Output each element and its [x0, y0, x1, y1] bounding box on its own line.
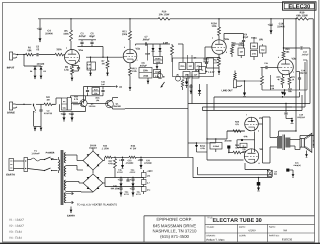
ground R7 — [106, 72, 109, 76]
capacitor C5 — [89, 33, 95, 47]
EQ module box — [173, 58, 214, 77]
capacitor C6 cathode bypass — [72, 66, 80, 71]
volume network — [231, 42, 245, 58]
capacitor C10A cathode — [203, 54, 219, 68]
transistor Q1 — [79, 98, 96, 112]
ground C19 — [291, 119, 294, 124]
title block company address — [153, 218, 196, 239]
wire NFB right edge — [312, 19, 314, 148]
capacitor C25 — [130, 169, 136, 187]
ext amp jack — [287, 162, 301, 173]
capacitor C27 — [130, 187, 141, 197]
resistor R17 cathode — [214, 57, 221, 70]
PI enclosure wires — [262, 60, 307, 90]
ground V1a cathode — [71, 77, 74, 81]
resistor R15 220k — [163, 42, 173, 62]
capacitor C24 — [117, 169, 123, 187]
ground network — [89, 72, 92, 76]
capacitor C4 — [37, 19, 53, 42]
node dot C19 — [285, 103, 286, 104]
drive caps row — [126, 178, 129, 182]
stack R18A — [251, 37, 258, 60]
terminal block — [24, 158, 28, 172]
ground input diodes — [34, 75, 43, 79]
ground V1b cathode — [129, 86, 132, 90]
capacitor C26 — [118, 187, 129, 197]
tone lower boxes — [183, 72, 199, 79]
title block fields — [207, 226, 292, 241]
net arrow C8 — [111, 86, 122, 88]
pentode V3 — [245, 114, 262, 131]
supply rail 1 — [101, 145, 193, 160]
resistor R1 — [26, 47, 34, 56]
label Q2 — [113, 103, 120, 107]
output transformer T2 — [278, 130, 297, 150]
wire R24A node — [188, 142, 216, 144]
drive input boxes — [52, 98, 71, 111]
diode D3 clip — [145, 44, 154, 55]
ground V2a cathode — [218, 70, 221, 74]
resistor R19A line out — [234, 71, 236, 80]
wire plates to OT — [258, 117, 277, 163]
resistor R22 tail — [261, 68, 264, 91]
cathode box — [240, 143, 247, 152]
screen network box — [210, 138, 222, 152]
resistor R4 grid stopper — [55, 49, 64, 56]
switch S1a — [44, 152, 58, 160]
pentode V4 — [244, 147, 262, 164]
resistor R11 plate load — [122, 19, 132, 50]
triode V1a — [65, 47, 84, 67]
net label 3P — [259, 39, 263, 41]
resistor R26 grid V4 — [229, 145, 245, 154]
wire grid V3 — [207, 131, 245, 139]
capacitor C9 — [242, 34, 248, 45]
resistor R20 — [277, 75, 284, 89]
capacitor C19 — [284, 104, 305, 120]
diode D4 clip — [159, 44, 162, 51]
lower bus node — [257, 178, 260, 191]
wire plate to C9 — [224, 34, 244, 42]
tone network boxes — [139, 68, 152, 79]
resistor R5 plate load — [64, 19, 73, 50]
drawing number box ELEC30 — [283, 2, 317, 10]
wire drive out — [113, 98, 189, 110]
tone pots row — [179, 55, 206, 74]
resistor R15A plate — [211, 19, 220, 40]
wire bus B — [188, 74, 310, 158]
title block frame — [144, 216, 315, 242]
transistor Q2 — [103, 98, 114, 110]
wire C17 down — [309, 48, 311, 104]
mains inlet — [7, 159, 25, 176]
ground speaker — [305, 151, 308, 158]
wire interstage — [86, 57, 123, 63]
earth ground — [67, 207, 75, 217]
ground PI box — [283, 89, 286, 96]
wire lower bus — [193, 157, 272, 178]
ground line out — [243, 92, 246, 97]
voltage note — [205, 71, 214, 73]
resistor R4B — [129, 156, 136, 158]
resistor R13 cathode — [129, 63, 137, 86]
supply rail 2 — [103, 177, 144, 183]
capacitor C2b — [34, 104, 53, 126]
wire V4 cathode down — [245, 163, 270, 170]
wire bus A — [214, 92, 300, 110]
resistor network box R14A — [153, 50, 163, 65]
triode V2a — [212, 37, 229, 58]
triode V1b — [123, 47, 140, 63]
node square — [228, 146, 231, 154]
drive row2 components — [71, 81, 111, 103]
screen resistor R29 — [237, 132, 255, 153]
pot P2 drive — [157, 71, 164, 78]
capacitor C14 — [297, 70, 307, 90]
capacitor C32 — [60, 104, 86, 121]
input jack J1 — [7, 52, 17, 69]
wire B+ to output transformer — [295, 19, 297, 131]
bridge D7-D10 — [66, 174, 104, 192]
diode D5 eq — [185, 78, 188, 88]
pot P3 — [176, 74, 181, 81]
resistor R23 plate — [282, 19, 289, 60]
wire bus C — [192, 62, 305, 111]
switch S1b — [28, 168, 58, 171]
resistor R45 — [86, 96, 103, 104]
capacitor C20 — [138, 157, 153, 172]
resistor R44 base — [71, 96, 78, 105]
wire B+ rail — [38, 18, 284, 19]
resistor R6 cathode — [64, 65, 73, 77]
fuse F1 — [28, 150, 45, 161]
resistor R7 grid leak — [102, 57, 109, 71]
ground drive — [34, 127, 43, 131]
power transformer T1 — [59, 150, 66, 205]
capacitor C8 text — [139, 62, 146, 67]
title block title ELECTAR TUBE 30 — [207, 217, 262, 222]
capacitor C7 — [142, 36, 149, 61]
capacitor C13 gnd — [189, 84, 192, 94]
network R8 C6a — [87, 62, 96, 72]
dropper column — [142, 170, 151, 194]
wire OT secondary to speaker — [290, 140, 300, 150]
ground ext amp — [292, 173, 295, 177]
resistor R33 — [181, 80, 183, 91]
capacitor C15 — [261, 63, 278, 70]
resistor R12 boxes — [154, 70, 161, 78]
line out jack — [222, 80, 242, 92]
resistor R41 drive — [44, 96, 52, 105]
labels lower PI — [270, 85, 292, 92]
diode D6 eq — [198, 84, 201, 96]
capacitor C2 — [36, 46, 39, 57]
label 2N5088 — [225, 140, 232, 141]
wire NFB tap — [300, 135, 314, 139]
switch S2 drive — [33, 105, 36, 126]
cap C12 stack — [260, 44, 267, 57]
resistor R19 feedback — [284, 12, 314, 21]
wiper mark — [161, 82, 165, 87]
triode V2b — [278, 57, 296, 75]
speaker SP1 — [300, 133, 314, 152]
capacitor C17 — [283, 46, 310, 55]
supply rail 3 — [105, 183, 144, 187]
capacitor C3 — [78, 33, 85, 47]
wire input to grid — [16, 54, 65, 55]
coupling node wires — [78, 40, 104, 58]
tube complement list — [9, 219, 24, 239]
wire line out — [241, 80, 263, 91]
bridge D3-D6 — [66, 145, 104, 174]
capacitor C23 — [119, 157, 133, 168]
resistor R46 label — [111, 185, 120, 189]
drive jack J2 — [7, 102, 17, 114]
ground tone — [147, 78, 150, 84]
resistor R47 bleeder — [108, 159, 116, 178]
wire V1b plate out — [136, 44, 184, 62]
wire V2a grid — [205, 47, 212, 61]
diode D1 — [24, 55, 41, 75]
wire bus D — [206, 84, 243, 160]
resistor R10 — [158, 11, 170, 20]
resistor R21 — [288, 74, 295, 88]
heater wires — [66, 192, 117, 205]
resistor R28 cathode — [267, 170, 277, 176]
resistor R24A — [195, 142, 207, 152]
diode D2 — [30, 63, 46, 74]
wire drive row — [16, 104, 56, 105]
ground R14A — [156, 65, 159, 69]
resistor R25 grid V3 — [227, 121, 245, 132]
ground bus A — [281, 92, 284, 98]
capacitor C16 — [268, 19, 285, 34]
